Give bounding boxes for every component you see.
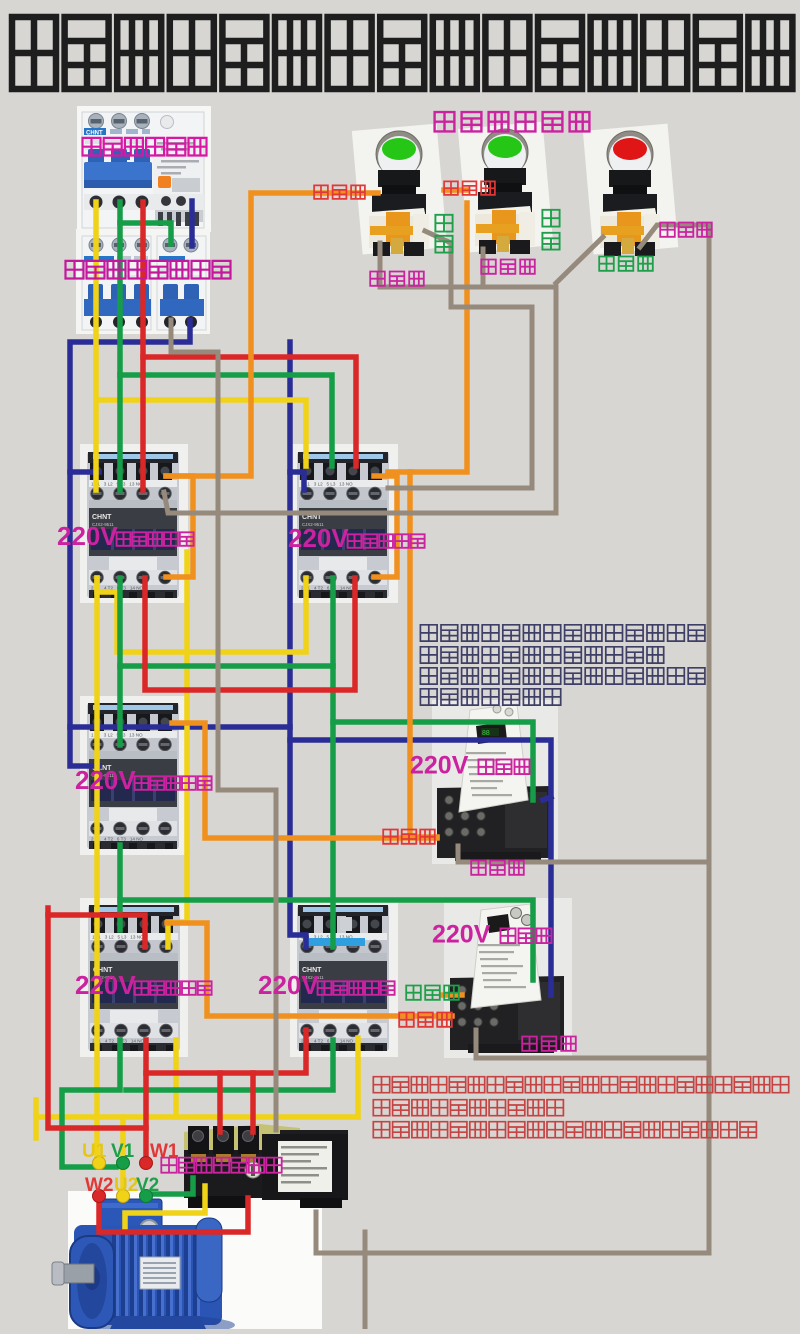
push button SB1 green start forward — [352, 124, 447, 256]
wire orange control wire (374,476)to(374,577) — [374, 476, 397, 577]
svg-text:220V: 220V — [288, 523, 349, 553]
wire green phase-B wire (333,1040)to(126,1090) — [126, 1040, 333, 1090]
wire navy neutral/control wire (290,740)to(551,995) — [290, 740, 551, 995]
svg-text:U1: U1 — [82, 1141, 107, 1162]
thermal relay FR1 short-circuit overload protector — [184, 1124, 348, 1208]
svg-text:W1: W1 — [150, 1141, 179, 1162]
svg-text:220V: 220V — [410, 751, 469, 779]
wire green phase-B wire (152,1194)to(193,1178) — [152, 1178, 193, 1194]
wire red phase-C wire (145,578)to(355,578) — [145, 578, 355, 690]
photo box timer KT2 — [444, 898, 572, 1058]
contactor KM5 220V contactor with blue jumper bar — [297, 905, 389, 1051]
wire gray common wire (380,243)to(164,492) — [164, 243, 556, 513]
label 短路过载保护器 relay — [161, 1158, 176, 1173]
label 漏电保护开关 — [83, 138, 101, 156]
motor terminal dot U1 — [93, 1157, 106, 1170]
label 公共端 timer KT2 — [522, 1037, 537, 1051]
svg-text:V2: V2 — [136, 1175, 159, 1196]
title 星形三角形电机正反转电路图远程款 — [12, 17, 56, 89]
motor terminal dot V2 — [140, 1190, 153, 1203]
wire navy neutral/control wire (290,472)to(304,490) — [290, 472, 304, 490]
wire gray common wire (425,231)to(388,488) — [388, 231, 532, 488]
wire red phase-C wire (220,1073)to(220,1132) — [217, 1073, 223, 1132]
wire red phase-C wire (253,1073)to(253,1132) — [250, 1073, 256, 1132]
wire yellow phase-A wire (176,1040)to(36,1117) — [36, 1040, 176, 1117]
wire green phase-B wire (120,666)to(333,666) — [120, 663, 333, 669]
wire yellow phase-A wire (36,1100)to(36,1138) — [33, 1100, 39, 1138]
wire green phase-B wire (120,1040)to(116,1167) — [62, 1040, 120, 1167]
wire yellow phase-A wire (123,1196)to(123,1117) — [120, 1117, 126, 1196]
wire green phase-B wire (333,722)to(533,800) — [333, 722, 533, 800]
wire navy neutral/control wire (551,797)to(543,800) — [543, 797, 551, 800]
label 常闭端 timer KT2 — [406, 986, 421, 1000]
wire navy neutral/control wire (190,320)to(99,766) — [70, 320, 190, 766]
wire gray common wire (640,247)to(316,1222) — [316, 225, 709, 1253]
photo box contactor KM3 — [80, 696, 188, 855]
wire gray common wire (365,1232)to(365,1329) — [363, 1232, 368, 1329]
svg-text:220V: 220V — [258, 970, 319, 1000]
wire red phase-C wire (146,1073)to(306,1030) — [146, 1030, 306, 1073]
breaker QF2 2-pole part — [157, 236, 206, 330]
breaker QF2 short-circuit overload protection switch, 3-pole part — [82, 236, 151, 330]
label 常开端 timer KT1 — [383, 830, 398, 844]
wire navy neutral/control wire (290,342)to(306,947) — [290, 342, 306, 947]
wire green phase-B wire (120,578)to(120,745) — [117, 578, 123, 745]
wire green phase-B wire (120,845)to(120,930) — [117, 845, 123, 930]
label 短路过载保护开关 — [66, 261, 84, 279]
wire orange control wire (167,923)to(452,1016) — [167, 923, 452, 1016]
motor terminal dot W1 — [140, 1157, 153, 1170]
contactor KM4 220V contactor — [88, 905, 180, 1051]
wire orange control wire (443,995)to(462,995) — [443, 992, 462, 998]
svg-text:W2: W2 — [85, 1175, 114, 1196]
wire yellow phase-A wire (205,1186)to(125,1230) — [125, 1186, 205, 1230]
photo box motor M1 — [68, 1191, 322, 1329]
photo box timer KT1 — [432, 700, 558, 864]
breaker QF1 leakage protection switch — [82, 112, 204, 228]
wire yellow phase-A wire (97,578)to(97,1163) — [94, 578, 100, 1163]
photo box contactor KM2 — [290, 444, 398, 603]
wire green phase-B wire (333,578)to(333,947) — [330, 578, 336, 947]
wire orange control wire (467,203)to(388,472) — [388, 203, 467, 472]
svg-text:220V: 220V — [75, 765, 136, 795]
contactor KM3 220V contactor — [87, 703, 179, 849]
wire red phase-C wire (143,357)to(356,466) — [143, 357, 356, 466]
label 常闭端 button SB3 — [599, 257, 614, 271]
wire green phase-B wire (120,900)to(533,980) — [120, 900, 533, 980]
label 复位点动开关 — [435, 112, 455, 131]
wire yellow phase-A wire (176,1117)to(358,1038) — [176, 1038, 358, 1117]
label 常开端 button SB1 — [314, 185, 328, 199]
photo box breaker QF2 — [76, 229, 210, 334]
wire yellow phase-A wire (96,400)to(306,466) — [96, 400, 306, 466]
label 公共端 button SB3 — [660, 223, 675, 237]
wire red phase-C wire (146,1040)to(146,1163) — [143, 1040, 149, 1163]
svg-text:CHNT: CHNT — [86, 131, 103, 137]
push button SB2 green start reverse — [458, 122, 553, 254]
photo box contactor KM5 — [290, 898, 398, 1057]
timer KT1 220V time relay with socket — [437, 704, 551, 861]
svg-text:220V: 220V — [57, 521, 118, 551]
wire orange control wire (166,476)to(166,577) — [166, 476, 193, 577]
svg-text:88: 88 — [482, 730, 490, 737]
wire navy neutral/control wire (70,472)to(99,472) — [70, 469, 99, 475]
wire yellow phase-A wire (96,202)to(96,490) — [93, 202, 99, 490]
svg-text:V1: V1 — [111, 1141, 135, 1162]
wire orange control wire (172,723)to(437,838) — [172, 723, 437, 838]
wire navy neutral/control wire (192,201)to(192,246) — [189, 201, 195, 246]
timer KT2 220V time relay with socket — [450, 904, 564, 1053]
note paragraph first timer explanation — [420, 625, 437, 641]
wire gray common wire (458,846)to(709,862) — [458, 846, 709, 862]
label 公共端 button SB2 — [481, 260, 496, 274]
wire red phase-C wire (143,202)to(143,490) — [140, 202, 146, 490]
wire red phase-C wire (48,908)to(146,1128) — [48, 908, 146, 1128]
svg-text:U2: U2 — [114, 1175, 138, 1196]
wire gray common wire (483,249)to(483,287) — [481, 249, 486, 287]
wire green phase-B wire (120,375)to(332,466) — [120, 375, 332, 466]
wire gray common wire (171,320)to(276,1130) — [171, 320, 276, 1130]
wire green phase-B wire (120,202)to(120,490) — [117, 202, 123, 490]
contactor KM2 220V contactor — [297, 452, 389, 598]
contactor KM1 220V contactor — [87, 452, 179, 598]
wire orange control wire (410,472)to(437,837) — [410, 472, 437, 837]
photo box breaker QF1 — [77, 106, 211, 232]
wire yellow phase-A wire (97,578)to(306,578) — [97, 578, 306, 652]
wire gray common wire (603,237)to(556,283) — [556, 237, 603, 283]
wire red phase-C wire (99,1196)to(248,1198) — [99, 1196, 248, 1232]
label 常开端 button SB2 — [444, 181, 458, 195]
wire orange control wire (378,193)to(166,476) — [166, 193, 378, 476]
wire orange control wire (444,190)to(467,190) — [444, 187, 467, 193]
label 常闭 vertical button SB2 — [542, 210, 559, 227]
wire gray common wire (476,1030)to(709,1058) — [476, 1030, 709, 1058]
photo box contactor KM1 — [80, 444, 188, 603]
push button SB3 red stop — [583, 124, 678, 256]
label 公共端 timer KT1 — [471, 861, 486, 875]
motor terminal dot U2 — [117, 1190, 130, 1203]
wire yellow phase-A wire (187,552)to(168,947) — [168, 552, 187, 947]
motor terminal dot W2 — [93, 1190, 106, 1203]
svg-text:220V: 220V — [75, 970, 136, 1000]
photo box contactor KM4 — [80, 898, 188, 1057]
wire red phase-C wire (48,915)to(145,947) — [48, 915, 145, 947]
svg-text:220V: 220V — [432, 920, 491, 948]
note paragraph second timer explanation red — [373, 1077, 389, 1093]
motor M1 blue three-phase motor — [52, 1199, 235, 1334]
wire green phase-B wire (120,223)to(171,244) — [120, 223, 171, 244]
motor terminal dot V1 — [117, 1157, 130, 1170]
label 公共端 button SB1 — [370, 272, 385, 286]
label 常闭 vertical button SB1 — [435, 215, 452, 232]
wire navy neutral/control wire (70,727)to(290,727) — [70, 724, 290, 730]
label 常开端 timer KT2 — [399, 1013, 414, 1027]
